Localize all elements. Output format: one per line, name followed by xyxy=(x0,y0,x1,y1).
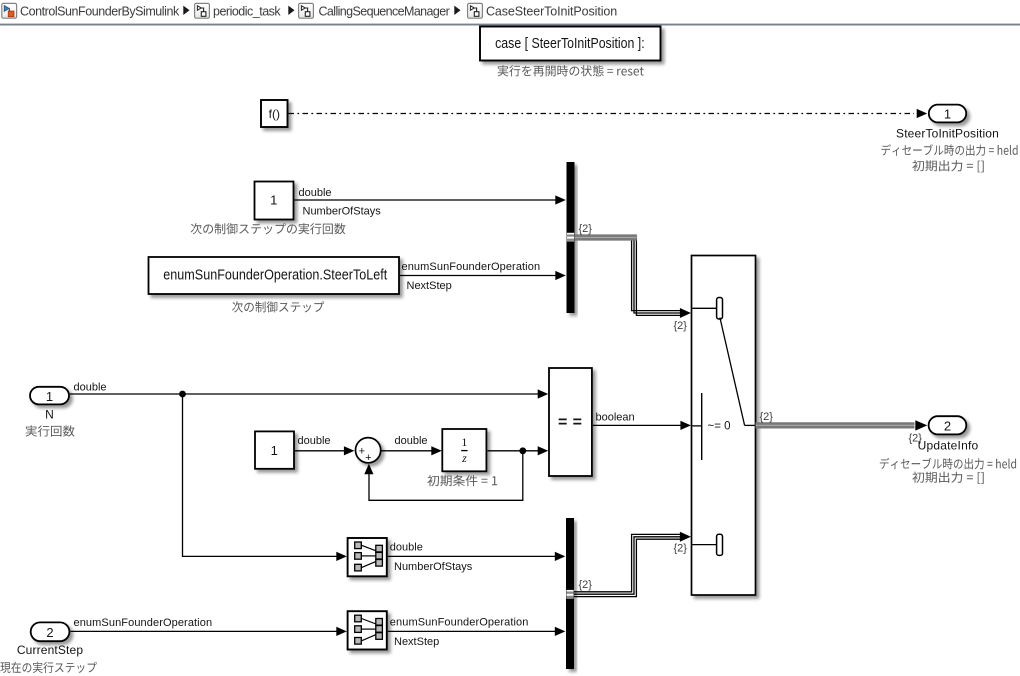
svg-text:double: double xyxy=(299,187,332,199)
breadcrumb icon: subsystem CallingSequenceManager xyxy=(299,3,314,18)
svg-text:1: 1 xyxy=(461,435,467,449)
svg-text:2: 2 xyxy=(944,419,951,434)
svg-text:{2}: {2} xyxy=(579,579,593,591)
svg-text:{2}: {2} xyxy=(674,543,688,555)
svg-text:ControlSunFounderBySimulink: ControlSunFounderBySimulink xyxy=(20,5,180,19)
bus creator 1 output port marker xyxy=(567,233,574,242)
constant block value 1 (NumberOfStays) xyxy=(255,182,294,220)
breadcrumb separator arrow xyxy=(288,6,294,15)
outport 1 SteerToInitPosition xyxy=(929,105,966,123)
annotation: ディセーブル時の出力 = held (outport 1) xyxy=(881,144,1017,156)
bus creator 2 bar xyxy=(566,518,574,669)
svg-text:z: z xyxy=(461,451,467,465)
bus creator 1 bar xyxy=(567,162,575,313)
sum block (adder circle) xyxy=(356,438,381,463)
bus wire: bus creator 2 to switch input 3 (triple line) xyxy=(574,534,681,591)
wire: CurrentStep to selector 2 xyxy=(70,630,338,632)
inport 1 N xyxy=(30,387,69,405)
wire: selector 2 to bus creator 2 input 2 xyxy=(388,630,557,632)
bus creator 2 output port marker xyxy=(566,590,573,599)
wire: sum to unit delay xyxy=(380,450,432,452)
svg-text:NextStep: NextStep xyxy=(394,636,439,648)
switch input 1 contact line xyxy=(692,307,716,309)
switch control stub xyxy=(692,425,701,427)
selector block 1 (NumberOfStays) xyxy=(348,538,387,576)
switch selector diagonal line xyxy=(720,318,745,426)
bus wire: bus creator 1 to switch input 1 (triple line) xyxy=(632,236,681,311)
svg-text:1: 1 xyxy=(944,107,951,122)
annotation: 次の制御ステップの実行回数 xyxy=(191,223,346,234)
breadcrumb icon: model ControlSunFounderBySimulink xyxy=(2,3,17,18)
wide gray bus wire: switch output to outport 2 xyxy=(756,422,915,428)
feedback wire: unit delay output to sum bottom input xyxy=(369,451,523,501)
svg-text:+: + xyxy=(359,445,365,457)
svg-text:f(): f() xyxy=(269,107,280,121)
wire: constant 1 to bus creator input 1 xyxy=(294,199,557,201)
svg-text:SteerToInitPosition: SteerToInitPosition xyxy=(896,127,999,141)
wire: selector 1 to bus creator 2 input 1 xyxy=(388,555,557,557)
svg-text:{2}: {2} xyxy=(579,223,593,235)
wire junction node on N wire xyxy=(179,391,186,398)
svg-text:==: == xyxy=(558,414,587,431)
annotation: 初期出力 = [] (outport 1) xyxy=(912,160,983,172)
wire: N to relational operator input 1 xyxy=(70,393,539,395)
breadcrumb icon: subsystem CaseSteerToInitPosition xyxy=(468,3,483,18)
svg-text:1: 1 xyxy=(46,389,53,404)
svg-text:boolean: boolean xyxy=(596,411,635,423)
annotation: 次の制御ステップ xyxy=(232,301,324,312)
svg-text:{2}: {2} xyxy=(760,411,774,423)
annotation: ディセーブル時の出力 = held (outport 2) xyxy=(880,458,1016,470)
annotation: 実行を再開時の状態 = reset xyxy=(498,65,644,76)
annotation: 現在の実行ステップ (inport 2) xyxy=(0,662,96,673)
switch input 3 contact capsule xyxy=(717,534,723,555)
svg-text:enumSunFounderOperation: enumSunFounderOperation xyxy=(402,261,541,273)
wire: constant to sum xyxy=(295,450,345,452)
annotation: 実行回数 (inport 1) xyxy=(26,425,75,436)
constant block enumSunFounderOperation.SteerToLeft xyxy=(149,257,400,294)
function-call dash-dot wire to SteerToInitPosition outport xyxy=(289,113,915,115)
breadcrumb divider line xyxy=(0,24,1020,26)
wire: N branch down to selector 1 xyxy=(183,394,338,556)
wire: enum constant to bus creator input 2 xyxy=(400,275,557,277)
svg-text:2: 2 xyxy=(46,625,53,640)
svg-text:enumSunFounderOperation: enumSunFounderOperation xyxy=(74,617,213,629)
wire: unit delay to relational operator input 2 xyxy=(487,450,538,452)
switch block xyxy=(692,256,756,596)
svg-text:1: 1 xyxy=(271,443,278,458)
function-call subsystem trigger block f() xyxy=(261,100,288,127)
annotation: 初期出力 = [] (outport 2) xyxy=(912,472,983,484)
svg-text:NumberOfStays: NumberOfStays xyxy=(303,206,382,218)
breadcrumb separator arrow xyxy=(183,6,189,15)
wide gray bus segment from bus creator 1 xyxy=(575,234,637,240)
svg-text:~= 0: ~= 0 xyxy=(708,421,731,433)
switch input 1 contact capsule xyxy=(717,298,723,320)
breadcrumb bar background xyxy=(0,0,1020,24)
svg-text:double: double xyxy=(390,542,423,554)
svg-text:enumSunFounderOperation.SteerT: enumSunFounderOperation.SteerToLeft xyxy=(163,267,388,284)
svg-text:NumberOfStays: NumberOfStays xyxy=(394,561,473,573)
svg-text:CallingSequenceManager: CallingSequenceManager xyxy=(319,5,450,19)
svg-text:double: double xyxy=(74,382,107,394)
switch input 3 contact line xyxy=(692,544,716,546)
svg-text:enumSunFounderOperation: enumSunFounderOperation xyxy=(390,617,529,629)
svg-text:1: 1 xyxy=(270,192,277,207)
svg-text:CaseSteerToInitPosition: CaseSteerToInitPosition xyxy=(486,5,617,19)
svg-text:double: double xyxy=(298,435,331,447)
svg-text:N: N xyxy=(45,408,54,422)
wire: relational operator to switch control input xyxy=(593,424,681,426)
relational operator block == xyxy=(549,368,592,476)
unit delay block 1/z xyxy=(442,429,486,471)
switch control criteria bar xyxy=(701,393,703,460)
breadcrumb separator arrow xyxy=(454,6,460,15)
switch output stub xyxy=(745,424,755,426)
svg-text:double: double xyxy=(395,435,428,447)
constant block value 1 (increment) xyxy=(255,431,294,468)
svg-text:{2}: {2} xyxy=(674,320,688,332)
svg-text:case [ SteerToInitPosition ]:: case [ SteerToInitPosition ]: xyxy=(495,35,645,52)
inport 2 CurrentStep xyxy=(31,622,70,641)
case action port block: case [ SteerToInitPosition ]: xyxy=(480,27,661,61)
outport 2 UpdateInfo xyxy=(929,416,967,434)
wire junction node on unit delay output xyxy=(519,447,526,454)
svg-text:CurrentStep: CurrentStep xyxy=(17,643,84,657)
svg-text:periodic_task: periodic_task xyxy=(213,5,281,19)
selector block 2 (NextStep) xyxy=(348,611,387,649)
annotation: 初期条件 = 1 (unit delay) xyxy=(427,475,497,486)
svg-text:NextStep: NextStep xyxy=(407,280,452,292)
breadcrumb icon: subsystem periodic_task xyxy=(195,3,210,18)
svg-text:UpdateInfo: UpdateInfo xyxy=(918,439,979,453)
svg-text:+: + xyxy=(365,452,371,464)
